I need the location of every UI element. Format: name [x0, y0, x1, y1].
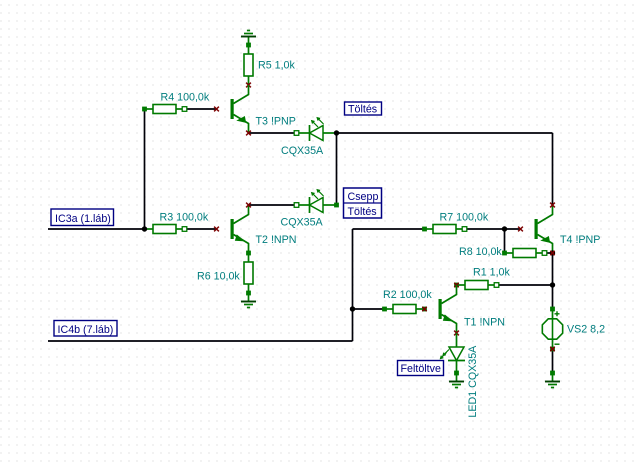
label R2 [383, 289, 432, 301]
pin end T1 emitter [454, 331, 459, 336]
transistor T4 [535, 205, 553, 253]
wire R4 to T3 base [185, 108, 217, 110]
label R7 [440, 212, 489, 224]
pin end VS2 bottom [550, 347, 555, 352]
wire vertical from IC3a junction up to R4 [144, 109, 146, 229]
svg-text:R3 100,0k: R3 100,0k [160, 212, 209, 224]
transistor T3 [231, 85, 249, 133]
svg-text:T1 !NPN: T1 !NPN [464, 316, 505, 328]
label CQX35A lower [281, 217, 324, 229]
ground below LED1 [449, 373, 464, 388]
svg-text:IC3a (1.láb): IC3a (1.láb) [55, 213, 111, 225]
wire vertical junction to lower LED [336, 133, 338, 205]
svg-text:R1 1,0k: R1 1,0k [473, 266, 510, 278]
resistor R3 body [145, 225, 185, 234]
label R1 [473, 266, 510, 278]
pad VS2 ground [550, 371, 555, 376]
label R5 [258, 59, 295, 71]
net label Csepp [344, 188, 382, 218]
pad R4 left [142, 107, 147, 112]
wire R2 row from junction [353, 308, 385, 310]
wire vertical T4 collector [552, 133, 554, 205]
svg-text:Csepp: Csepp [348, 191, 379, 203]
label T2 [256, 234, 297, 246]
ground below R6 [241, 293, 256, 308]
pad LED upper left [294, 131, 299, 136]
label LED1 [467, 345, 479, 418]
svg-text:Töltés: Töltés [348, 103, 377, 115]
svg-text:Feltöltve: Feltöltve [401, 363, 441, 375]
pad R1 right [494, 283, 499, 288]
label T3 [256, 116, 296, 128]
pad R8 left [502, 251, 507, 256]
wire LED junction to T4 collector column [337, 132, 553, 134]
ground top [241, 31, 256, 46]
svg-text:CQX35A: CQX35A [281, 217, 324, 229]
pad R1 left [454, 283, 459, 288]
pin end R5 bottom [246, 83, 251, 88]
net label IC3a [51, 209, 114, 226]
pin end T3 emitter [246, 131, 251, 136]
resistor R4 body [145, 105, 185, 114]
label T4 [560, 234, 600, 246]
pad R6 bottom [246, 291, 251, 296]
pad R8 right [542, 251, 547, 256]
pin end R1 left [454, 283, 458, 287]
svg-text:R7 100,0k: R7 100,0k [440, 212, 489, 224]
resistor R1 body [457, 281, 497, 290]
svg-text:R8 10,0k: R8 10,0k [459, 246, 502, 258]
svg-text:R2 100,0k: R2 100,0k [383, 289, 432, 301]
junction R2 node [350, 306, 355, 311]
wire IC3a net horizontal [48, 228, 145, 230]
LED CQX35A lower [297, 190, 337, 213]
voltage source VS2 [542, 309, 562, 349]
label R3 [160, 212, 209, 224]
svg-text:T3 !PNP: T3 !PNP [256, 116, 296, 128]
pad LED lower left [294, 203, 299, 208]
resistor R5 body [244, 45, 253, 85]
svg-text:R5 1,0k: R5 1,0k [258, 59, 295, 71]
svg-text:R4 100,0k: R4 100,0k [161, 91, 210, 103]
label R8 [459, 246, 502, 258]
LED LED1 vertical [441, 333, 466, 373]
wire VS2 to ground [552, 349, 554, 373]
pad R4 right [182, 107, 187, 112]
wire vertical Csepp net [352, 229, 354, 341]
svg-text:T4 !PNP: T4 !PNP [560, 234, 600, 246]
net label Feltoltve [398, 361, 444, 376]
junction LED node [334, 130, 339, 135]
pad LED lower right [334, 203, 339, 208]
wire R7 to T4 base [465, 228, 521, 230]
pad R7 right [462, 227, 467, 232]
svg-text:IC4b (7.láb): IC4b (7.láb) [58, 324, 114, 336]
wire R1 to emitter column [497, 284, 553, 286]
svg-text:Töltés: Töltés [348, 206, 377, 218]
resistor R2 body [385, 305, 425, 314]
pin end R2 right [422, 307, 426, 311]
pin end T4 collector [550, 203, 555, 208]
svg-text:T2 !NPN: T2 !NPN [256, 234, 297, 246]
svg-text:CQX35A: CQX35A [281, 145, 324, 157]
junction IC3a node [142, 226, 147, 231]
svg-text:VS2 8,2: VS2 8,2 [567, 323, 605, 335]
wire junction down to R8 [504, 229, 506, 253]
resistor R6 body [244, 253, 253, 293]
wire IC4b net horizontal [48, 340, 353, 342]
resistor R7 body [425, 225, 465, 234]
label CQX35A upper [281, 145, 324, 157]
pin end T2 collector [246, 203, 251, 208]
svg-text:LED1 CQX35A: LED1 CQX35A [467, 345, 479, 418]
pad T2 emitter [246, 251, 251, 256]
pin end T4 base [518, 227, 523, 232]
net label Toltes [345, 102, 382, 115]
net label Toltes2 [348, 206, 377, 218]
wire corner to R7 [353, 228, 425, 230]
label R6 [197, 270, 240, 282]
pin end T3 base [214, 107, 219, 112]
wire R8 to T4 emitter node [545, 252, 553, 254]
junction T4 emitter node [550, 250, 555, 255]
pad R3 right [182, 227, 187, 232]
pad R2 left [382, 307, 387, 312]
label R4 [161, 91, 210, 103]
transistor T2 [231, 205, 249, 253]
pad R2 right [422, 307, 427, 312]
wire T2 collector to lower LED [249, 204, 297, 206]
ground below VS2 [545, 373, 560, 388]
LED CQX35A upper [297, 118, 337, 141]
wire T3 emitter to LED [249, 132, 297, 134]
pad R7 left [422, 227, 427, 232]
label T1 [464, 316, 505, 328]
wire T4 emitter node down to VS2 [552, 253, 554, 309]
junction R1 node [550, 282, 555, 287]
junction R7-R8 node [502, 226, 507, 231]
pad LED1 bottom [454, 371, 459, 376]
net label IC4b [54, 321, 117, 337]
svg-text:R6 10,0k: R6 10,0k [197, 270, 240, 282]
pad R5 top [246, 43, 251, 48]
label VS2 [567, 323, 605, 335]
wire R3 to T2 base [185, 228, 217, 230]
transistor T1 [439, 285, 457, 333]
pad VS2 top [550, 307, 555, 312]
pin end T2 base [214, 227, 219, 232]
resistor R8 body [505, 249, 545, 258]
